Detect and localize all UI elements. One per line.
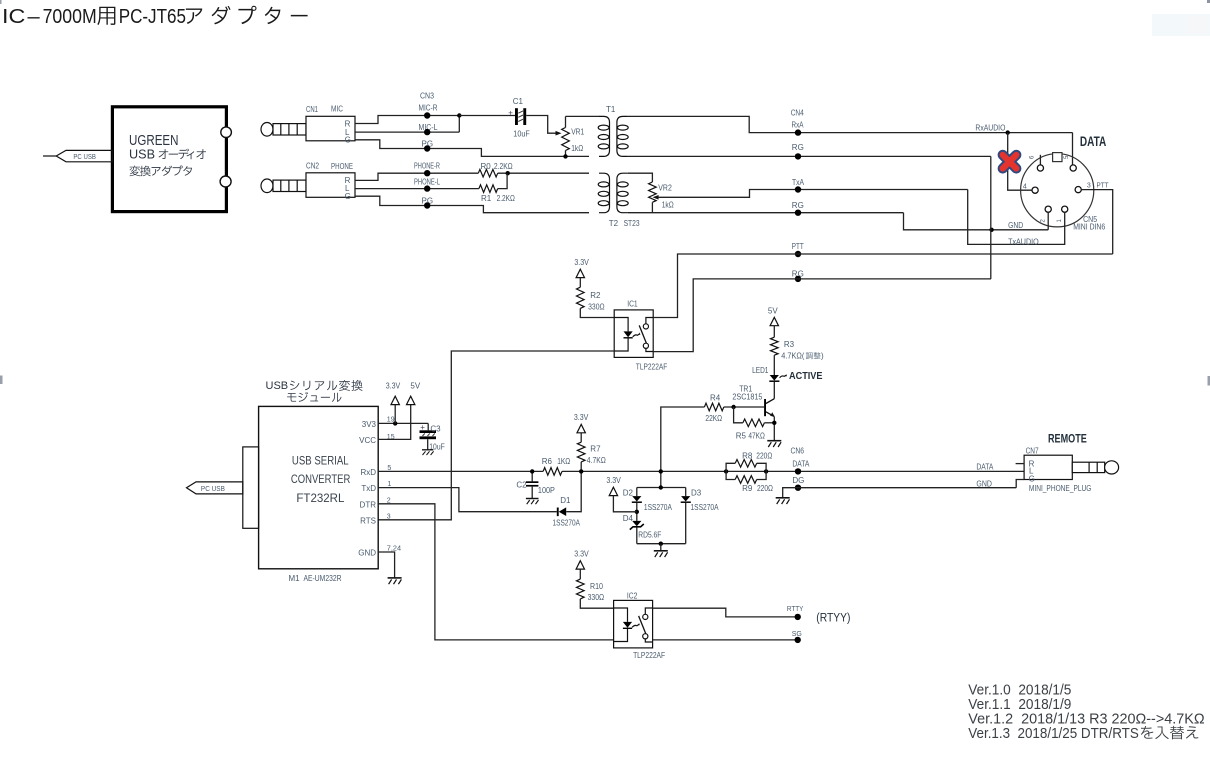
power arrow 5V (module) (407, 396, 415, 404)
DIN pin 6 stub (1039, 155, 1041, 165)
wire CN2-L to PHONE-L (355, 188, 479, 190)
svg-text:3.3V: 3.3V (574, 413, 589, 422)
USB connector rect (243, 447, 259, 528)
svg-text:GND: GND (1008, 221, 1023, 230)
PC USB arrow tag (FT232) (187, 482, 243, 494)
wire TR1 base from R4 (724, 406, 764, 408)
version notes (968, 681, 1204, 742)
wire CN2-G to PG2 (355, 196, 589, 213)
svg-text:USB: USB (266, 380, 289, 392)
diode network bottom rail (637, 543, 686, 545)
wire T1 secondary top to RxA (628, 116, 1073, 132)
svg-text:G: G (1029, 474, 1035, 483)
potentiometer VR1 1k (562, 128, 570, 151)
connector CN1 MIC phone plug (261, 123, 306, 137)
svg-text:RG: RG (792, 201, 804, 210)
svg-text:D3: D3 (691, 488, 702, 497)
USB audio adapter UGREEN box (112, 107, 226, 212)
svg-text:R8: R8 (742, 451, 753, 460)
UGREEN jack socket circle 2 (220, 176, 231, 187)
wire CN2-R to PHONE-R (355, 173, 478, 180)
svg-text:2.2KΩ: 2.2KΩ (497, 194, 515, 203)
wire VR1 top to T1 primary (566, 115, 600, 117)
wire VR2 wiper to TxA (653, 195, 659, 200)
svg-text:1SS270A: 1SS270A (644, 503, 673, 512)
svg-text:3.3V: 3.3V (574, 549, 589, 558)
wire IC1 switch bottom to RG (653, 279, 991, 352)
svg-text:FT232RL: FT232RL (296, 491, 344, 505)
svg-text:+: + (508, 108, 513, 117)
title IC-7000M用 PC-JT65アダプター (2, 5, 186, 28)
wire RxD main line (378, 470, 543, 472)
scroll mark right edge (1208, 376, 1210, 386)
wire TR1 emitter to ground (773, 417, 775, 441)
svg-text:3: 3 (387, 513, 391, 520)
capacitor C3 10uF (427, 423, 429, 430)
wire VR2 bottom (651, 202, 653, 212)
svg-text:220Ω: 220Ω (757, 484, 773, 493)
svg-text:4.7KΩ: 4.7KΩ (587, 456, 606, 465)
svg-text:47KΩ: 47KΩ (748, 432, 765, 441)
svg-text:MIC-R: MIC-R (419, 104, 438, 113)
svg-text:CN1: CN1 (306, 105, 318, 114)
resistor pair R8 R9 220 (724, 469, 728, 473)
ground C2 (526, 499, 539, 505)
wire R3 to LED1 (773, 355, 775, 375)
corner mark top-right (1207, 0, 1210, 3)
svg-text:ACTIVE: ACTIVE (789, 371, 823, 382)
ground C3 (422, 450, 434, 455)
svg-text:PHONE-L: PHONE-L (414, 177, 440, 186)
svg-text:R4: R4 (710, 393, 721, 402)
svg-text:CN6: CN6 (791, 447, 805, 456)
wire RG1 down join (990, 156, 992, 279)
wire GND pin to ground (378, 552, 394, 578)
svg-text:330Ω: 330Ω (588, 593, 605, 602)
wire R10 to IC2 (580, 599, 613, 608)
svg-text:R0: R0 (481, 162, 492, 171)
svg-text:T1: T1 (606, 105, 616, 114)
svg-text:R2: R2 (590, 291, 601, 300)
svg-text:DG: DG (792, 476, 804, 485)
svg-text:LED1: LED1 (752, 366, 769, 375)
svg-text:C1: C1 (513, 97, 524, 106)
svg-text:C3: C3 (430, 424, 441, 433)
resistor R4 22K (704, 403, 723, 411)
connector CN2 PHONE phone plug (261, 179, 306, 193)
wire DTR to IC2 (378, 504, 613, 640)
svg-text:G: G (345, 192, 351, 201)
svg-text:RxAUDIO: RxAUDIO (975, 124, 1005, 133)
zener D4 RD5.6F (632, 521, 641, 526)
svg-text:RTTY: RTTY (787, 606, 804, 613)
red X mark (cut connection) (1003, 155, 1017, 169)
wire C1 to VR1 wiper (526, 116, 557, 134)
svg-text:PC USB: PC USB (73, 154, 96, 161)
svg-text:VR2: VR2 (658, 183, 672, 192)
capacitor C2 100P (531, 471, 533, 481)
svg-text:R7: R7 (590, 445, 601, 454)
wire DG to ground (783, 488, 1017, 498)
svg-text:D1: D1 (560, 496, 571, 505)
svg-text:RG: RG (792, 143, 804, 152)
corner mark top-left (0, 0, 2, 4)
wire R1 out to junction (498, 173, 507, 188)
svg-text:2SC1815: 2SC1815 (732, 393, 762, 402)
wire D1 anode to R7 node (566, 471, 581, 511)
wire T2 secondary top to VR2 (628, 173, 653, 182)
wire T1 secondary bottom RG (628, 155, 991, 157)
wire TxD to D1 (378, 488, 557, 512)
svg-text:C2: C2 (516, 480, 527, 489)
svg-text:7000M: 7000M (43, 5, 97, 28)
ground DG (776, 498, 790, 504)
wire main line to diode network (660, 471, 662, 487)
svg-text:MIC: MIC (331, 105, 343, 114)
svg-text:M1: M1 (289, 574, 301, 583)
svg-text:): ) (821, 351, 824, 360)
svg-text:3.3V: 3.3V (606, 476, 621, 485)
svg-text:TxD: TxD (361, 484, 376, 493)
svg-text:PTT: PTT (792, 242, 804, 251)
wire LED1 to TR1 collector (773, 382, 775, 399)
PC USB arrow tag (UGREEN) (43, 155, 56, 157)
wire DIN pin1 to TxAUDIO (968, 190, 1065, 245)
wire GND row (904, 213, 1049, 230)
svg-text:5V: 5V (768, 306, 778, 315)
svg-text:PTT: PTT (1097, 183, 1110, 190)
resistor R5 47K (734, 407, 743, 423)
svg-text:1kΩ: 1kΩ (571, 144, 583, 153)
svg-text:2: 2 (1041, 219, 1047, 223)
wire CN1-L to MIC-L (355, 131, 459, 133)
svg-text:D2: D2 (623, 488, 634, 497)
svg-text:330Ω: 330Ω (588, 303, 605, 312)
svg-text:RxA: RxA (792, 121, 805, 130)
wire R stub CN7 (1016, 463, 1025, 465)
svg-text:IC1: IC1 (627, 300, 638, 309)
svg-text:R10: R10 (590, 582, 603, 591)
svg-text:G: G (345, 136, 351, 145)
diode D1 1SS270A (557, 508, 559, 517)
svg-text:1: 1 (1057, 219, 1063, 223)
svg-text:RTS: RTS (360, 517, 376, 526)
resistor R0 2.2K (478, 169, 497, 177)
svg-text:3: 3 (1087, 183, 1091, 190)
svg-text:1kΩ: 1kΩ (662, 200, 674, 209)
DIN pin circles (1037, 165, 1043, 171)
power arrow 3.3V (module) (394, 405, 396, 424)
svg-text:VR1: VR1 (571, 127, 584, 136)
svg-text:PC-JT65: PC-JT65 (119, 5, 186, 28)
svg-text:1KΩ: 1KΩ (557, 457, 570, 466)
svg-text:CN2: CN2 (306, 161, 319, 170)
svg-text:ST23: ST23 (624, 219, 640, 228)
svg-text:USB: USB (129, 147, 155, 162)
svg-text:5V: 5V (410, 381, 420, 390)
svg-text:22KΩ: 22KΩ (705, 414, 722, 423)
svg-text:10uF: 10uF (513, 130, 530, 139)
svg-text:RxD: RxD (360, 468, 376, 477)
svg-text:MINI DIN6: MINI DIN6 (1073, 223, 1105, 232)
svg-text:TLP222AF: TLP222AF (633, 651, 665, 660)
svg-text:R1: R1 (481, 194, 492, 203)
ground diode network (654, 551, 668, 557)
LED LED1 ACTIVE (770, 375, 779, 381)
svg-text:PHONE-R: PHONE-R (414, 162, 440, 171)
svg-text:(RTYY): (RTYY) (816, 612, 850, 624)
wire IC1 pin2 to RTS (378, 351, 614, 520)
svg-text:REMOTE: REMOTE (1048, 431, 1087, 445)
wire IC1 switch top to PTT (653, 254, 1113, 318)
svg-text:DATA: DATA (792, 460, 810, 469)
svg-text:2.2KΩ: 2.2KΩ (494, 162, 513, 171)
svg-text:R3: R3 (784, 340, 795, 349)
svg-text:3V3: 3V3 (362, 420, 377, 429)
ground TR1 emitter (767, 441, 781, 447)
svg-text:CN7: CN7 (1026, 446, 1039, 455)
wire DIN pin3 to PTT (1081, 190, 1112, 254)
faint overlay top-right (1152, 14, 1210, 36)
svg-text:R6: R6 (542, 457, 553, 466)
capacitor C1 10uF (515, 108, 518, 125)
svg-text:PC USB: PC USB (201, 486, 225, 493)
svg-text:1: 1 (387, 481, 391, 488)
svg-text:4: 4 (1023, 184, 1027, 191)
svg-text:RD5.6F: RD5.6F (638, 530, 661, 539)
svg-text:1SS270A: 1SS270A (553, 519, 581, 528)
svg-text:DATA: DATA (1080, 133, 1106, 149)
wire junction MIC-R/MIC-L (458, 116, 460, 133)
wire IC2 switch top to RTTY (653, 608, 798, 617)
diode network top rail (637, 487, 686, 489)
svg-text:IC2: IC2 (627, 592, 638, 601)
resistor R7 4.7K (577, 442, 585, 462)
svg-text:D4: D4 (623, 514, 634, 523)
resistor R2 330 (577, 287, 585, 308)
svg-text:1SS270A: 1SS270A (691, 503, 720, 512)
svg-text:R5: R5 (736, 431, 747, 440)
wire R4 to main line (661, 407, 705, 471)
svg-text:PHONE: PHONE (331, 162, 353, 171)
svg-text:TLP222AF: TLP222AF (636, 362, 668, 371)
potentiometer VR2 1k (649, 182, 657, 202)
svg-text:GND: GND (976, 480, 992, 489)
svg-text:TxAUDIO: TxAUDIO (1008, 238, 1039, 247)
wire GND to CN7 G (1016, 480, 1024, 488)
resistor R1 2.2K (479, 185, 498, 193)
svg-text:CONVERTER: CONVERTER (291, 472, 351, 486)
diode D3 1SS270A (685, 488, 687, 497)
svg-text:IC: IC (2, 5, 26, 28)
wire DIN pin2 down to GND row (1047, 212, 1049, 230)
UGREEN jack socket circle 1 (221, 127, 232, 138)
svg-text:CN4: CN4 (791, 108, 804, 117)
resistor R3 4.7K (771, 337, 779, 355)
diode D2 1SS270A (636, 488, 638, 497)
svg-text:+: + (420, 423, 425, 432)
connector CN5 MINI DIN6 (1021, 154, 1094, 227)
svg-text:–: – (28, 5, 41, 28)
svg-text:Ver.1.3 2018/1/25 DTR/RTS: Ver.1.3 2018/1/25 DTR/RTS (968, 725, 1139, 742)
resistor R6 1K (543, 468, 562, 476)
svg-text:DTR: DTR (360, 500, 377, 509)
svg-text:4.7KΩ(: 4.7KΩ( (781, 351, 804, 360)
wire CN1-G to PG (355, 140, 589, 157)
svg-text:6: 6 (1030, 155, 1036, 159)
wire IC2 switch bottom to SG (653, 639, 798, 641)
svg-text:100P: 100P (538, 486, 555, 495)
svg-text:3.3V: 3.3V (574, 258, 589, 267)
svg-text:USB SERIAL: USB SERIAL (292, 453, 349, 467)
power arrow 3.3V (R7) (577, 424, 585, 432)
svg-text:GND: GND (358, 549, 376, 558)
wire R0 out (498, 172, 589, 174)
svg-text:TxA: TxA (792, 178, 805, 187)
svg-text:AE-UM232R: AE-UM232R (304, 574, 342, 583)
scroll mark left edge (0, 376, 3, 385)
wire T2 secondary bottom RG (628, 212, 904, 214)
wire R2 to IC1 (580, 308, 614, 317)
svg-text:VCC: VCC (359, 436, 376, 445)
svg-text:220Ω: 220Ω (756, 451, 772, 460)
svg-text:T2: T2 (609, 219, 619, 228)
svg-text:DATA: DATA (976, 463, 994, 472)
svg-text:3.3V: 3.3V (386, 381, 401, 390)
module M1 FT232RL box (259, 406, 379, 568)
svg-text:MINI_PHONE_PLUG: MINI_PHONE_PLUG (1029, 484, 1092, 493)
svg-text:R9: R9 (742, 484, 753, 493)
ground module GND (388, 578, 402, 584)
svg-text:CN3: CN3 (420, 91, 434, 100)
wire MIC junction to C1 (459, 115, 515, 117)
wire CN1-R to MIC-R (355, 116, 459, 124)
wire RxAUDIO down to DIN pin4 (1008, 133, 1032, 191)
wire RxA to DIN pin5 (1072, 133, 1074, 165)
resistor R10 330 (577, 579, 585, 599)
